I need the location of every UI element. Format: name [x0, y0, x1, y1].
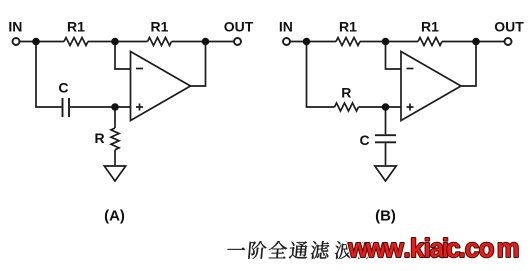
svg-text:R1: R1 [151, 19, 169, 35]
svg-text:w: w [383, 235, 404, 263]
svg-text:(B): (B) [375, 208, 396, 225]
svg-text:R1: R1 [67, 19, 85, 35]
svg-text:m: m [497, 235, 520, 263]
svg-text:c: c [465, 235, 479, 263]
svg-text:IN: IN [8, 19, 22, 35]
svg-text:o: o [479, 235, 495, 263]
svg-text:OUT: OUT [224, 19, 254, 35]
svg-text:R1: R1 [339, 19, 357, 35]
svg-text:R: R [341, 85, 351, 101]
svg-text:C: C [58, 80, 68, 96]
svg-text:k: k [410, 235, 425, 263]
svg-text:IN: IN [279, 19, 293, 35]
svg-text:C: C [359, 132, 369, 148]
svg-text:R1: R1 [421, 19, 439, 35]
svg-text:OUT: OUT [494, 19, 524, 35]
svg-text:(A): (A) [104, 208, 125, 225]
svg-text:R: R [94, 130, 104, 146]
